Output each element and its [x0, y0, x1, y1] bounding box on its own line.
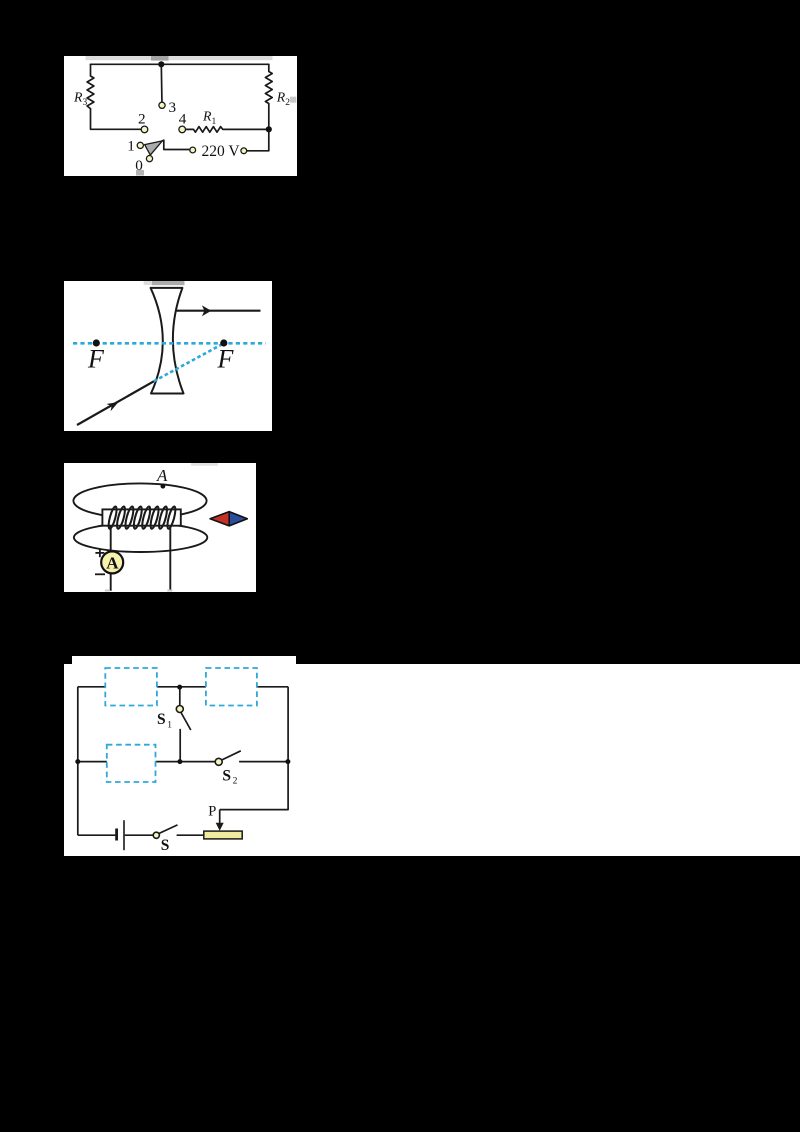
svg-text:0: 0: [135, 156, 143, 173]
svg-text:1: 1: [127, 137, 135, 154]
svg-text:F: F: [87, 344, 105, 373]
svg-text:R: R: [202, 108, 212, 123]
svg-text:2: 2: [232, 776, 237, 786]
svg-text:2: 2: [138, 110, 146, 127]
svg-text:1: 1: [211, 116, 216, 126]
svg-text:A: A: [106, 554, 119, 573]
svg-text:R: R: [73, 89, 83, 104]
svg-text:S: S: [157, 710, 166, 727]
svg-text:A: A: [156, 466, 168, 485]
svg-text:3: 3: [82, 97, 87, 107]
svg-text:F: F: [217, 344, 235, 373]
svg-text:1: 1: [167, 720, 172, 730]
svg-text:4: 4: [178, 110, 186, 127]
svg-text:P: P: [208, 803, 216, 819]
svg-text:2: 2: [285, 97, 290, 107]
svg-text:3: 3: [168, 99, 176, 116]
svg-text:220 V: 220 V: [201, 143, 240, 160]
svg-text:S: S: [160, 837, 169, 854]
svg-text:R: R: [275, 89, 285, 104]
svg-text:S: S: [222, 767, 231, 784]
